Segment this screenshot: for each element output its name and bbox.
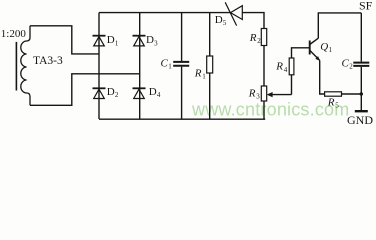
wire: Q1 collector to SF rail [318,13,361,38]
svg-text:R: R [248,87,256,99]
svg-text:R: R [275,61,283,73]
svg-text:R: R [327,96,335,108]
R3 wiper arrow [269,94,292,96]
svg-text:4: 4 [284,66,288,74]
svg-text:D: D [107,34,115,46]
resistor R5 [325,92,342,96]
svg-text:C: C [161,57,169,69]
svg-text:5: 5 [335,102,339,110]
svg-text:1: 1 [168,62,172,70]
potentiometer R3 [261,86,266,101]
resistor R1 [209,13,211,56]
svg-text:2: 2 [257,37,261,45]
diode D4 [133,88,146,98]
wire: secondary top lead to bridge left leg [30,26,99,54]
zener diode D5 [225,2,242,25]
svg-text:D: D [146,34,154,46]
wire: wiper up to R4 bottom [291,75,293,95]
svg-text:C: C [342,57,350,69]
transformer secondary coil [21,26,30,106]
capacitor C2 [353,62,369,64]
wire: bridge right leg [139,13,141,119]
svg-text:2: 2 [349,62,353,70]
svg-text:D: D [149,86,157,98]
diode D1 [93,36,106,46]
resistor R2 [261,29,266,46]
capacitor C1 [181,13,183,61]
transistor Q1 [309,41,311,55]
wire: R2 to R3 [263,46,265,87]
wire: secondary bottom lead to bridge right leg [30,74,140,106]
svg-text:1: 1 [202,73,206,81]
svg-text:GND: GND [347,113,373,127]
diode D2 [93,88,106,98]
svg-text:4: 4 [157,91,161,99]
transformer TA3-3 primary bar [15,42,17,91]
svg-text:TA3-3: TA3-3 [33,55,63,67]
wire: Q1 emitter down [320,60,325,94]
SF rail / C2 column [360,13,362,62]
wire: bottom bus [99,118,265,120]
svg-text:3: 3 [154,39,158,47]
svg-text:www.cntronics.com: www.cntronics.com [191,99,349,119]
svg-text:1:200: 1:200 [1,28,27,40]
svg-text:1: 1 [329,46,333,54]
wire: D5 to R2 [242,13,264,29]
svg-text:R: R [249,32,257,44]
svg-text:5: 5 [223,19,227,27]
wire: bridge left leg [98,13,100,119]
svg-text:1: 1 [115,39,119,47]
diode D3 [133,36,146,46]
wire: R4 top to Q1 base [292,48,310,58]
wire: R5 to SF rail [342,93,362,95]
svg-text:D: D [215,14,223,26]
wire: top bus (bridge + output to D5) [99,12,231,14]
junction dot [360,92,363,95]
svg-text:Q: Q [320,41,328,53]
ground [355,110,368,112]
svg-text:R: R [194,67,202,79]
svg-text:D: D [107,86,115,98]
svg-text:3: 3 [256,93,260,101]
svg-text:2: 2 [115,91,119,99]
svg-text:SF: SF [359,0,373,13]
resistor R4 [289,58,294,75]
